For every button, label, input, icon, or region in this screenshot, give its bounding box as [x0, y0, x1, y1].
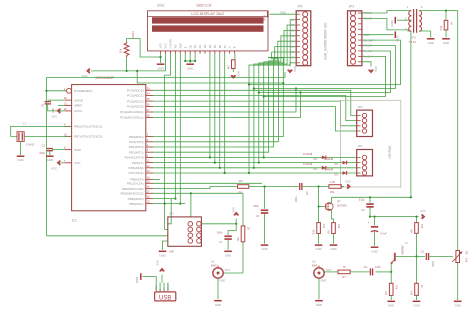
- svg-text:D1: D1: [291, 23, 295, 27]
- svg-text:D2: D2: [198, 44, 202, 48]
- wire PC5 SCL: [153, 93, 301, 118]
- wire R2 to U1 OUT: [242, 242, 244, 273]
- svg-text:100n: 100n: [294, 196, 298, 202]
- svg-text:PD0(RXD): PD0(RXD): [129, 135, 144, 139]
- svg-text:PD4(XCK/T0): PD4(XCK/T0): [125, 156, 144, 160]
- supply VCC arrow on AVCC: [61, 110, 65, 112]
- pin header JP5: [357, 110, 373, 136]
- supply VCC above ISP: [235, 219, 237, 224]
- wire R11 to VCC: [341, 186, 344, 188]
- wire ISP VCC: [201, 223, 236, 225]
- wire C5 to trimmer: [430, 256, 453, 258]
- wire U2 OUT to R7: [325, 271, 339, 273]
- svg-text:511p: 511p: [359, 198, 365, 202]
- connector U2 BNC: [314, 266, 324, 279]
- LCD pins 1-16: [159, 39, 237, 54]
- svg-text:GND: GND: [428, 41, 434, 45]
- resistor R10: [317, 223, 321, 234]
- svg-text:PD1(TXD): PD1(TXD): [129, 140, 143, 144]
- svg-text:D7: D7: [223, 44, 227, 48]
- IC1 right pins: [120, 87, 153, 206]
- svg-text:PB7(XTAL2/TOSC2): PB7(XTAL2/TOSC2): [74, 135, 102, 139]
- svg-text:VCC: VCC: [420, 209, 426, 213]
- svg-text:PC0(ADC0): PC0(ADC0): [127, 89, 143, 93]
- svg-text:VCC: VCC: [374, 66, 378, 72]
- svg-text:C5: C5: [421, 250, 425, 254]
- svg-text:PC3(ADC3): PC3(ADC3): [127, 105, 143, 109]
- capacitor C5 100n on GND pin: [52, 149, 65, 151]
- svg-text:R10: R10: [312, 229, 316, 234]
- svg-text:D1: D1: [335, 172, 339, 176]
- svg-text:GND: GND: [280, 10, 286, 14]
- svg-text:VCC: VCC: [293, 66, 297, 72]
- wire R4 column: [416, 257, 418, 284]
- svg-text:GND: GND: [390, 20, 394, 26]
- svg-text:LCD DISPLAY 16x2: LCD DISPLAY 16x2: [191, 12, 224, 16]
- svg-text:PD7(AIN1): PD7(AIN1): [129, 171, 144, 175]
- svg-text:VCC: VCC: [164, 43, 168, 49]
- svg-text:E: E: [183, 46, 187, 48]
- svg-text:VBUS: VBUS: [167, 284, 170, 291]
- pin header JP3: [348, 11, 362, 66]
- wire JP3 GND pin to rotated ground: [362, 34, 394, 36]
- ground under R12: [442, 38, 450, 40]
- svg-text:GND: GND: [159, 253, 165, 257]
- wire PB3 to output divider: [191, 193, 243, 226]
- svg-text:JP2: JP2: [297, 5, 303, 9]
- ground rotated right of JP3: [394, 31, 396, 38]
- supply VCC arrow on VCC pin: [61, 162, 65, 164]
- JP2 pin labels: [291, 18, 295, 60]
- svg-text:DIS1: DIS1: [157, 4, 165, 8]
- svg-text:VCC: VCC: [51, 166, 57, 170]
- svg-text:PD3(INT1): PD3(INT1): [129, 150, 144, 154]
- wires LCD RW D0 D1 to ground: [184, 54, 186, 61]
- svg-text:GND: GND: [157, 67, 163, 71]
- svg-text:PA_U0: PA_U0: [364, 49, 373, 53]
- svg-text:8 MHZ: 8 MHZ: [26, 143, 35, 147]
- svg-text:R8: R8: [239, 191, 243, 195]
- wire collector row to C5: [396, 256, 425, 258]
- svg-text:PD5(T1): PD5(T1): [132, 161, 144, 165]
- ground under U1: [214, 300, 222, 302]
- wire transformer secondary top: [419, 10, 446, 12]
- wire reset to ISP: [46, 235, 167, 237]
- svg-text:D3: D3: [291, 34, 295, 38]
- svg-text:PB3(MOSI/OC2): PB3(MOSI/OC2): [120, 192, 143, 196]
- svg-text:AREF: AREF: [74, 104, 82, 108]
- ground under R10: [315, 244, 323, 246]
- ground under bypass cap: [46, 155, 54, 157]
- svg-text:ENA1: ENA1: [131, 31, 135, 39]
- svg-text:47k: 47k: [395, 285, 399, 290]
- wire PB0 stub: [153, 178, 160, 180]
- svg-text:2N3904: 2N3904: [401, 246, 405, 256]
- svg-text:GND: GND: [315, 247, 321, 251]
- svg-text:1N4148: 1N4148: [303, 162, 313, 166]
- diode D2 1N4148: [322, 166, 326, 170]
- svg-text:Y1: Y1: [23, 122, 27, 126]
- svg-text:100n: 100n: [217, 231, 223, 235]
- resistor R9: [332, 223, 336, 234]
- resistor R4: [415, 283, 419, 295]
- svg-text:R4: R4: [410, 291, 414, 295]
- svg-text:K: K: [233, 46, 237, 48]
- svg-text:4.7uF: 4.7uF: [380, 232, 387, 236]
- ground under U2: [315, 300, 323, 302]
- svg-text:PB4(MISO): PB4(MISO): [128, 197, 144, 201]
- svg-text:10k: 10k: [119, 48, 123, 53]
- svg-text:BNC: BNC: [312, 264, 318, 268]
- wire LCD D4 column: [209, 54, 211, 158]
- wire XTAL1: [11, 126, 70, 136]
- transformer TR1 TJ-11: [405, 6, 423, 33]
- ground under C9: [261, 244, 269, 246]
- svg-text:100n: 100n: [375, 265, 381, 269]
- svg-text:IC1: IC1: [72, 219, 77, 223]
- svg-text:RESET: RESET: [364, 44, 373, 48]
- svg-text:C4: C4: [364, 265, 368, 269]
- svg-text:D5: D5: [291, 45, 295, 49]
- wire LCD VSS to ground: [160, 54, 162, 63]
- svg-text:10k: 10k: [465, 258, 469, 263]
- svg-text:Q1: Q1: [337, 199, 341, 203]
- capacitor C6 100n on AGND: [48, 99, 65, 101]
- connector USB: [155, 292, 176, 302]
- pin header JP4: [357, 150, 373, 176]
- svg-text:10k: 10k: [420, 224, 424, 229]
- wire reset rail end: [284, 72, 286, 78]
- svg-text:JP3: JP3: [349, 5, 355, 9]
- ground under R9: [330, 244, 338, 246]
- svg-text:VCC: VCC: [74, 161, 81, 165]
- svg-text:10k: 10k: [337, 224, 341, 229]
- wire long audio net right side: [457, 11, 459, 251]
- wire R8 to C8: [249, 186, 299, 188]
- svg-text:GND: GND: [215, 303, 221, 307]
- wire LCD D7 column: [224, 54, 226, 173]
- svg-text:GND: GND: [220, 279, 226, 283]
- svg-text:DE_SET: DE_SET: [364, 38, 375, 42]
- resonator Y1 8MHz: [17, 132, 24, 142]
- wire VCC spur rail: [137, 71, 283, 83]
- transistor T1 2N3904: [391, 253, 395, 264]
- wire USB ground: [142, 277, 156, 283]
- svg-text:VCC: VCC: [232, 207, 236, 213]
- wire PC4 SDA: [153, 89, 296, 113]
- wire drain net row: [331, 196, 411, 198]
- svg-text:R12: R12: [439, 25, 443, 30]
- svg-text:1.0k: 1.0k: [330, 180, 336, 184]
- wire C8 to R11: [303, 186, 329, 188]
- svg-text:GND: GND: [263, 15, 267, 21]
- keypad module outline: [340, 100, 400, 187]
- svg-text:100n: 100n: [52, 107, 55, 113]
- svg-text:GND: GND: [443, 41, 449, 45]
- wire gate pulldown: [318, 207, 320, 223]
- svg-text:GND: GND: [330, 247, 336, 251]
- svg-text:PC6(RESET): PC6(RESET): [74, 89, 92, 93]
- capacitor C4b 100n series input: [369, 268, 371, 275]
- resistor R3: [390, 272, 392, 283]
- wire JP3 TOUT2 to transformer pin3: [362, 18, 411, 31]
- svg-text:CONTR: CONTR: [169, 39, 173, 48]
- wire PB5 SCK row: [153, 203, 185, 205]
- svg-text:4k7: 4k7: [239, 179, 244, 183]
- svg-text:C3: C3: [361, 208, 365, 212]
- svg-text:D3: D3: [335, 162, 339, 166]
- ground under LCD pin1: [157, 63, 165, 65]
- svg-text:GND: GND: [396, 35, 400, 41]
- wires PD0-PD7 to GSM header JP2: [153, 20, 296, 173]
- wire VCC row: [370, 216, 419, 218]
- JP3 pin labels: [364, 11, 375, 59]
- svg-text:4k7: 4k7: [227, 64, 231, 69]
- wire gate node: [318, 187, 320, 207]
- svg-text:MEGA328P: MEGA328P: [96, 76, 116, 80]
- ground under trimmer: [454, 300, 462, 302]
- svg-text:PC2(ADC2): PC2(ADC2): [127, 99, 143, 103]
- svg-text:1M: 1M: [322, 224, 326, 228]
- wires PD rows to JP4 with diodes: [249, 157, 357, 173]
- svg-text:GND: GND: [187, 67, 193, 71]
- wire U2 to ground: [318, 278, 320, 299]
- svg-text:OUT: OUT: [225, 268, 231, 272]
- wire LCD VCC drop: [165, 54, 167, 71]
- svg-text:1N4148: 1N4148: [303, 152, 313, 156]
- wire VCC feed to LCD: [91, 70, 166, 72]
- svg-text:GND: GND: [413, 304, 419, 308]
- svg-text:TR1: TR1: [411, 36, 417, 40]
- svg-text:PB5(SCK): PB5(SCK): [129, 202, 143, 206]
- resistor R13 4k7 pullup: [232, 60, 236, 69]
- wire resistor top to LCD pin1 column: [127, 39, 161, 58]
- svg-text:PC5(ADC5/SCL): PC5(ADC5/SCL): [120, 116, 143, 120]
- svg-text:D4: D4: [291, 39, 295, 43]
- resistor R2: [241, 226, 245, 242]
- svg-text:+: +: [368, 221, 370, 225]
- ground under R4: [413, 300, 421, 302]
- svg-text:C2: C2: [42, 144, 46, 148]
- ground rotated at JP2 pin1: [267, 11, 269, 18]
- svg-text:R/W: R/W: [178, 43, 182, 49]
- wires ADC bus PC0-PC3 to keypad connector: [153, 90, 357, 131]
- svg-text:W_CLK: W_CLK: [364, 55, 373, 59]
- svg-text:VCC: VCC: [52, 115, 58, 119]
- wire PB2 to filter chain: [153, 187, 238, 189]
- supply VCC under JP3: [362, 62, 371, 67]
- wire U1 to ground: [217, 278, 219, 299]
- svg-text:KEYPAD: KEYPAD: [388, 145, 392, 158]
- svg-text:2N7000: 2N7000: [337, 203, 347, 207]
- ground under transformer: [427, 38, 435, 40]
- svg-text:100n: 100n: [39, 151, 45, 155]
- svg-text:JP5: JP5: [358, 105, 363, 109]
- svg-text:GND: GND: [321, 279, 327, 283]
- wire PB1 row: [153, 182, 262, 184]
- svg-text:AVCC: AVCC: [74, 109, 83, 113]
- svg-text:D4: D4: [314, 157, 318, 161]
- svg-text:VCC: VCC: [345, 180, 351, 184]
- ground under R3: [387, 300, 395, 302]
- USB pin labels: [155, 284, 170, 291]
- svg-text:R11: R11: [330, 190, 335, 194]
- svg-text:RS: RS: [173, 44, 177, 48]
- wire AREF stub: [58, 105, 65, 107]
- svg-text:D0: D0: [291, 18, 295, 22]
- IC1 left pins: [64, 88, 102, 165]
- resistor ENA1 10k: [119, 31, 135, 58]
- svg-text:100n: 100n: [253, 204, 259, 208]
- wire LCD E to PB5 column: [179, 54, 181, 204]
- svg-text:GND: GND: [225, 253, 231, 257]
- svg-text:1602 LCD: 1602 LCD: [196, 4, 212, 8]
- svg-text:GND: GND: [261, 247, 267, 251]
- svg-text:TJ-11: TJ-11: [409, 40, 417, 44]
- svg-text:JP4: JP4: [358, 144, 363, 148]
- microcontroller IC1 MEGA328P: [72, 85, 146, 211]
- wire resistor bottom to VCC rail: [126, 58, 128, 71]
- svg-text:D1: D1: [193, 44, 197, 48]
- svg-text:PB1(OC1A): PB1(OC1A): [127, 182, 143, 186]
- wire JP3 TOUT1 to transformer pin1: [362, 11, 411, 13]
- svg-text:PB6(XTAL1/TOSC1): PB6(XTAL1/TOSC1): [74, 125, 102, 129]
- svg-text:USB: USB: [159, 295, 171, 301]
- supply VCC arrow left of LCD: [87, 69, 90, 74]
- svg-text:D-: D-: [163, 288, 166, 291]
- svg-text:C7: C7: [219, 240, 223, 244]
- svg-text:R7: R7: [342, 275, 346, 279]
- svg-text:D2: D2: [314, 167, 318, 171]
- wire PB4 MISO to ISP: [153, 198, 175, 200]
- svg-text:T1: T1: [405, 241, 409, 245]
- capacitor C9 100n: [261, 209, 268, 211]
- svg-text:R3: R3: [384, 291, 388, 295]
- svg-text:D2: D2: [291, 29, 295, 33]
- wire base vertical: [390, 263, 392, 272]
- ground rotated left of USB: [140, 273, 142, 280]
- pin header JP1 ISP: [168, 217, 202, 246]
- resistor R6: [416, 217, 418, 223]
- svg-text:VCC: VCC: [237, 71, 241, 77]
- ground rotated at transformer center tap: [397, 19, 411, 21]
- svg-text:GND: GND: [316, 303, 322, 307]
- svg-text:GND: GND: [388, 304, 394, 308]
- ground under C7: [224, 250, 232, 252]
- wire resonator center to ground: [20, 142, 22, 156]
- svg-text:JP1: JP1: [169, 212, 174, 216]
- svg-text:D3: D3: [203, 44, 207, 48]
- svg-text:R2: R2: [236, 237, 240, 241]
- svg-text:1N4148: 1N4148: [324, 157, 334, 161]
- supply VCC under JP2: [290, 63, 296, 67]
- svg-text:OUT: OUT: [326, 268, 332, 272]
- svg-text:C8: C8: [305, 192, 309, 196]
- transistor Q1 2N7000: [325, 203, 333, 211]
- wire LCD CONTR long drop to ISP: [165, 54, 171, 230]
- wire transformer secondary bottom to ground: [419, 31, 431, 38]
- supply VCC above USB: [160, 269, 165, 272]
- ground under C4: [371, 246, 379, 248]
- svg-text:GND: GND: [47, 158, 53, 162]
- svg-text:GND: GND: [455, 304, 461, 308]
- wire LCD D6 column: [219, 54, 221, 168]
- wires JP3 control nets across: [248, 40, 401, 98]
- wire XTAL2: [24, 135, 69, 137]
- svg-text:VCC: VCC: [155, 260, 159, 266]
- wire Q1 source: [331, 209, 333, 222]
- svg-text:PD2(INT0): PD2(INT0): [129, 145, 144, 149]
- junction ENA resistor bottom: [126, 70, 128, 72]
- svg-text:AGND: AGND: [74, 98, 84, 102]
- svg-text:GND: GND: [135, 277, 139, 283]
- svg-text:D5: D5: [213, 44, 217, 48]
- supply VCC arrow right mid: [422, 214, 425, 219]
- resistor R12 50: [445, 11, 447, 21]
- wire LCD D6 to pullup: [234, 54, 236, 60]
- wire base row: [376, 271, 392, 273]
- supply VCC below pullup: [232, 69, 234, 73]
- wire Q1 drain: [330, 197, 332, 203]
- diode D3 1N4148: [343, 161, 347, 165]
- svg-text:100n: 100n: [431, 261, 435, 267]
- diode D1 1N4148: [343, 171, 347, 175]
- capacitor C5 100n series: [425, 253, 427, 260]
- wire trimmer bottom to ground: [457, 263, 459, 301]
- supply VCC right arrow: [347, 184, 350, 189]
- svg-text:BNC: BNC: [211, 264, 217, 268]
- svg-text:GND: GND: [155, 285, 158, 291]
- junctions PD rows continue to diodes: [263, 156, 265, 158]
- electrolytic capacitor C4 4.7uF: [374, 217, 376, 226]
- ground under LCD data pins: [186, 63, 194, 65]
- capacitor C7 100n at ISP: [228, 224, 236, 235]
- svg-text:PD6(AIN0): PD6(AIN0): [129, 166, 144, 170]
- svg-text:C6: C6: [41, 103, 45, 107]
- pin header JP2: [296, 11, 311, 66]
- capacitor C8 100n series: [299, 183, 301, 190]
- ground under resonator: [17, 155, 25, 157]
- svg-text:R9: R9: [327, 230, 331, 234]
- svg-text:R6: R6: [410, 229, 414, 233]
- wire JP2 GND pin: [270, 13, 297, 15]
- svg-text:GND: GND: [17, 158, 23, 162]
- wire ISP ground: [163, 241, 168, 250]
- svg-text:A: A: [228, 46, 232, 48]
- diode D4 1N4148: [322, 156, 326, 160]
- svg-text:VSS: VSS: [159, 43, 163, 48]
- svg-text:D6: D6: [218, 44, 222, 48]
- connector U1 BNC: [213, 266, 223, 279]
- svg-text:ISP: ISP: [169, 250, 174, 254]
- svg-text:C9: C9: [256, 214, 260, 218]
- svg-text:D4: D4: [208, 44, 212, 48]
- svg-text:PC4(ADC4/SDA): PC4(ADC4/SDA): [120, 110, 144, 114]
- capacitor C3 511p: [369, 197, 371, 202]
- svg-text:GND: GND: [74, 148, 82, 152]
- svg-text:D0: D0: [188, 44, 192, 48]
- trimmer R5: [452, 251, 462, 263]
- ground under ISP: [159, 250, 167, 252]
- svg-text:PB2(SS/OC1B): PB2(SS/OC1B): [122, 187, 143, 191]
- resistor R8: [238, 185, 249, 189]
- resistor R7 75: [338, 270, 350, 274]
- svg-text:D7: D7: [291, 56, 295, 60]
- resistor R11 1.0k: [329, 185, 341, 189]
- wire to decoupling cap C9: [264, 187, 266, 209]
- wire LCD RS to PB4 column: [174, 54, 176, 199]
- USB pin wires: [156, 283, 168, 292]
